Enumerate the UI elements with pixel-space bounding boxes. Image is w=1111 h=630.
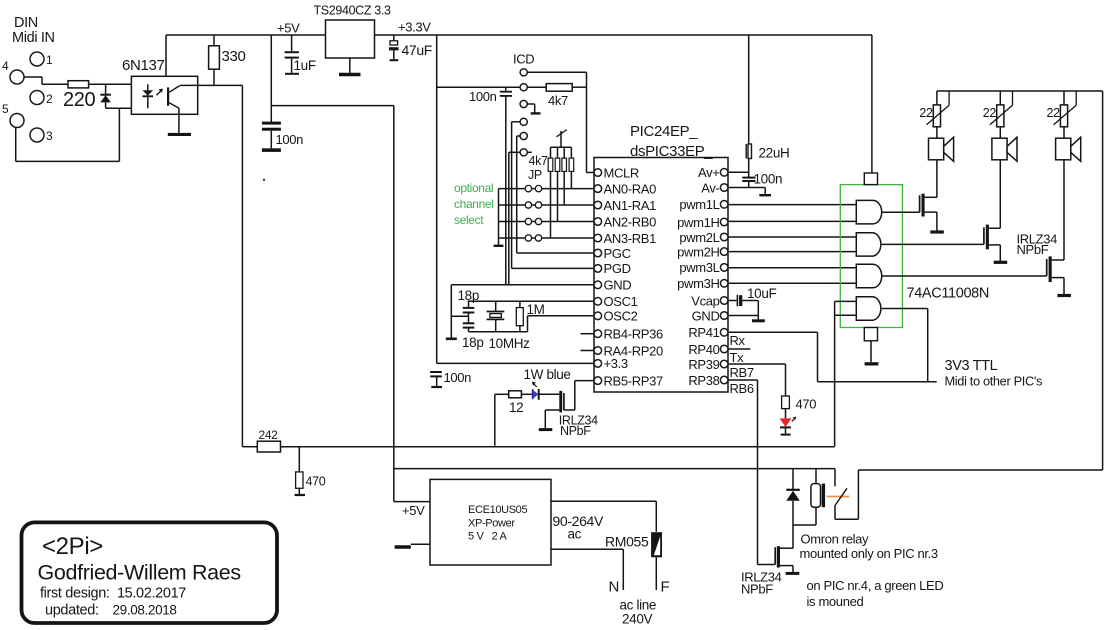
transistor Q5 IRLZ34 relay driver	[741, 546, 799, 596]
wire gate1 output to Q1 gate	[882, 211, 920, 213]
svg-text:3: 3	[46, 129, 53, 143]
wire RA4 stub	[581, 350, 595, 352]
PIC right pin pwm2L	[679, 230, 728, 245]
svg-text:DIN: DIN	[14, 15, 38, 31]
opto emitter ground	[168, 108, 191, 136]
resistor 22 variable ch2	[983, 91, 1013, 127]
svg-text:Vcap: Vcap	[691, 293, 719, 308]
wire Av- to ground	[728, 188, 771, 196]
opto internal LED	[143, 84, 154, 108]
svg-text:on PIC nr.4, a green LED: on PIC nr.4, a green LED	[807, 578, 944, 593]
svg-text:47uF: 47uF	[402, 42, 433, 58]
svg-text:Tx: Tx	[730, 350, 745, 365]
PIC left pin MCLR	[594, 165, 639, 180]
svg-text:10uF: 10uF	[747, 286, 776, 301]
svg-text:N: N	[609, 579, 619, 596]
pullup supply tick	[550, 130, 571, 148]
wire pullup1 to AN3 row	[550, 171, 552, 238]
PIC right pin pwm3L	[679, 260, 728, 275]
svg-text:AN1-RA1: AN1-RA1	[604, 198, 657, 213]
wire pwm2L to gate2	[728, 236, 856, 238]
svg-text:470: 470	[306, 475, 326, 489]
wire RB4 stub	[581, 333, 595, 335]
svg-text:pwm1H: pwm1H	[677, 215, 719, 230]
PIC left pin RB4-RP36	[594, 327, 663, 342]
svg-text:100n: 100n	[276, 132, 304, 147]
PIC left pin OSC2	[594, 309, 638, 324]
wire AC live to fuse	[551, 501, 656, 532]
svg-text:RP39: RP39	[688, 357, 719, 372]
wire RP40 Tx stub	[728, 349, 750, 365]
svg-text:+3.3: +3.3	[604, 356, 628, 371]
svg-text:pwm1L: pwm1L	[679, 197, 719, 212]
resistors 4k7 x4 jumper pullups	[529, 147, 574, 171]
svg-text:Omron relay: Omron relay	[801, 532, 870, 547]
optional channel select note	[454, 181, 494, 227]
ICD pin 1	[520, 69, 527, 76]
wire pwm3H to gate3	[728, 282, 856, 284]
svg-text:mounted only on PIC nr.3: mounted only on PIC nr.3	[800, 546, 938, 561]
PIC left pin AN3-RB1	[594, 231, 656, 246]
wire opto output to node	[180, 84, 242, 86]
svg-text:pwm2L: pwm2L	[679, 230, 719, 245]
svg-text:GND: GND	[692, 308, 720, 323]
svg-text:242: 242	[259, 428, 279, 442]
svg-text:+5V: +5V	[277, 21, 300, 36]
svg-text:29.08.2018: 29.08.2018	[113, 603, 177, 618]
wire +5V branch down to power supply	[271, 35, 430, 502]
PIC left pin OSC1	[594, 294, 638, 309]
wire AC neutral	[551, 549, 623, 590]
PIC left pin RA4-RP20	[594, 343, 663, 358]
wire pwm3L to gate3	[728, 267, 856, 269]
stray dot	[263, 179, 265, 181]
svg-text:ac line: ac line	[620, 598, 657, 613]
DIN pin 2	[30, 91, 53, 107]
svg-text:Rx: Rx	[730, 333, 746, 348]
wire +3.3 to PIC	[437, 362, 594, 364]
svg-text:2: 2	[46, 92, 53, 106]
svg-text:RB4-RP36: RB4-RP36	[604, 327, 663, 342]
speaker LS2	[992, 127, 1017, 228]
PIC left pin PGD	[594, 261, 631, 276]
wire pin4 to R 220	[24, 77, 68, 84]
svg-text:22uH: 22uH	[759, 146, 790, 161]
wire pullup2 to AN2 row	[557, 171, 559, 221]
capacitor 100n on +5V	[262, 122, 303, 152]
wire ICD pin5 to PGC	[517, 136, 594, 253]
svg-text:dsPIC33EP_: dsPIC33EP_	[630, 143, 713, 160]
speaker supply rail	[937, 91, 1103, 470]
IC U4 74AC11008N green outline	[840, 185, 989, 328]
wire pullup3 to AN1 row	[563, 171, 565, 205]
svg-text:Av+: Av+	[698, 165, 719, 180]
wire midi signal rail	[281, 446, 835, 448]
svg-text:RP40: RP40	[688, 342, 719, 357]
transistor Q1 IRLZ34	[920, 194, 944, 232]
svg-text:pwm3H: pwm3H	[677, 276, 719, 291]
wire opto LED cathode return	[16, 108, 148, 161]
PIC left pin AN0-RA0	[594, 181, 656, 196]
capacitor 100n on Av+	[742, 172, 782, 188]
relay contact switch	[827, 469, 1103, 520]
svg-text:AN2-RB0: AN2-RB0	[604, 214, 657, 229]
svg-text:RP38: RP38	[688, 373, 719, 388]
microcontroller U3 PIC24EP_/dsPIC33EP_	[594, 123, 728, 392]
svg-text:XP-Power: XP-Power	[468, 518, 515, 530]
svg-text:Midi IN: Midi IN	[12, 30, 55, 46]
svg-text:18p: 18p	[462, 335, 483, 350]
svg-text:240V: 240V	[622, 612, 652, 627]
wire opto output down to 242	[241, 85, 243, 446]
wire RB5 to LED driver gate	[575, 380, 594, 382]
capacitor 100n on +3.3	[430, 370, 471, 387]
green LED note	[807, 578, 944, 609]
svg-text:JP: JP	[528, 168, 542, 182]
gate IC power pin top	[864, 35, 877, 185]
svg-text:PGC: PGC	[604, 246, 631, 261]
svg-text:ECE10US05: ECE10US05	[468, 504, 527, 516]
crystal X1 10MHz	[487, 301, 531, 351]
IRLZ34 NPbF label	[1017, 232, 1058, 258]
+3.3V rail	[375, 20, 873, 36]
wire pullup4 to AN0 row	[570, 171, 572, 188]
wire gate3 output to Q3 gate	[882, 275, 1047, 277]
regulator U2 TS2940CZ 3.3	[314, 4, 391, 59]
wire pwm2H to gate2	[728, 251, 856, 253]
svg-text:AN3-RB1: AN3-RB1	[604, 231, 657, 246]
+5V rail	[166, 21, 326, 36]
svg-text:F: F	[661, 579, 670, 596]
AND gate 2	[856, 233, 881, 256]
svg-text:Midi to other PIC's: Midi to other PIC's	[945, 374, 1043, 389]
svg-text:Av-: Av-	[701, 180, 719, 195]
relay K1 coil	[811, 469, 825, 508]
svg-text:NPbF: NPbF	[741, 582, 773, 597]
PIC left pin GND	[594, 278, 631, 293]
wire Vdd line to ICD	[437, 86, 520, 88]
AC labels	[553, 513, 670, 627]
svg-text:NPbF: NPbF	[1017, 242, 1049, 257]
svg-text:select: select	[454, 213, 484, 227]
PIC left pin +3.3	[594, 356, 628, 371]
wire RP39 to 470/red LED	[728, 364, 786, 396]
resistor 220	[63, 81, 96, 111]
resistor 12	[509, 391, 524, 415]
svg-text:330: 330	[222, 48, 246, 65]
PIC right pin Av+	[698, 165, 728, 180]
AND gate 1	[856, 200, 881, 224]
svg-text:channel: channel	[454, 197, 494, 211]
svg-text:18p: 18p	[458, 288, 479, 303]
ICD pin 5	[520, 132, 527, 139]
regulator ground	[339, 58, 361, 75]
svg-text:first design: 15.02.2017: first design: 15.02.2017	[40, 586, 186, 602]
svg-text:6N137: 6N137	[122, 57, 164, 74]
svg-text:PGD: PGD	[604, 261, 631, 276]
ICD pin 3	[520, 100, 527, 107]
AND gate 3	[856, 264, 881, 288]
wire LED feed from midi rail	[495, 394, 509, 445]
wire gate4 output midi buffer	[818, 309, 937, 382]
svg-text:22: 22	[983, 106, 997, 120]
svg-text:OSC1: OSC1	[604, 294, 638, 309]
resistor 330 pullup	[209, 35, 246, 85]
opto phototransistor	[167, 86, 180, 109]
svg-text:+5V: +5V	[402, 503, 425, 518]
protection diode across opto input	[100, 84, 111, 108]
DIN Midi IN connector labels	[12, 15, 55, 46]
gate IC ground pin bottom	[864, 328, 878, 366]
svg-text:RB5-RP37: RB5-RP37	[604, 373, 663, 388]
PIC right pin Av-	[701, 180, 728, 195]
capacitor 100n on ICD Vdd	[469, 87, 512, 285]
svg-text:ac: ac	[568, 527, 582, 542]
svg-text:100n: 100n	[469, 89, 497, 104]
svg-text:OSC2: OSC2	[604, 309, 638, 324]
resistor 470 pulldown	[295, 447, 326, 495]
ICD pin 2	[520, 84, 527, 91]
svg-text:1W blue: 1W blue	[524, 367, 571, 382]
PIC left pin PGC	[594, 246, 631, 261]
svg-text:22: 22	[1047, 106, 1061, 120]
svg-text:5 V 2 A: 5 V 2 A	[468, 531, 507, 543]
svg-text:ICD: ICD	[513, 52, 534, 67]
svg-text:12: 12	[509, 400, 523, 415]
wire pwm1L to gate1	[728, 204, 856, 206]
svg-text:+3.3V: +3.3V	[398, 20, 431, 35]
svg-text:1uF: 1uF	[294, 58, 316, 73]
PIC right pin pwm2H	[677, 244, 728, 259]
wire pwm1H to gate1	[728, 220, 856, 222]
jumper JP1	[499, 185, 595, 191]
svg-text:4k7: 4k7	[529, 154, 549, 168]
svg-text:is mouned: is mouned	[807, 594, 864, 609]
speaker LS3	[1056, 127, 1081, 260]
wire OSC1 net	[468, 301, 594, 307]
3V3 TTL midi out note	[945, 358, 1043, 389]
Omron relay note	[800, 532, 938, 562]
title block	[22, 522, 278, 623]
wire 220 to optocoupler LED	[89, 83, 148, 85]
svg-text:4: 4	[2, 59, 9, 73]
LED D3 red	[780, 409, 797, 435]
DIN pin 5	[2, 102, 24, 128]
svg-text:74AC11008N: 74AC11008N	[907, 286, 990, 302]
ICD pin3 ground	[527, 104, 540, 113]
PIC left pin RB5-RP37	[594, 373, 663, 388]
svg-text:Godfried-Willem Raes: Godfried-Willem Raes	[38, 561, 241, 585]
svg-text:PIC24EP_: PIC24EP_	[630, 123, 698, 140]
svg-text:10MHz: 10MHz	[489, 336, 531, 351]
wire ICD pin4 to PGD	[512, 122, 594, 269]
wire gate2 output to Q2 gate	[882, 243, 984, 245]
PIC right pin pwm1H	[677, 215, 728, 230]
svg-text:optional: optional	[454, 181, 493, 195]
jumper JP3	[499, 218, 595, 224]
svg-text:3V3 TTL: 3V3 TTL	[945, 358, 998, 374]
inductor L1 22uH	[728, 35, 789, 177]
svg-text:pwm3L: pwm3L	[679, 260, 719, 275]
svg-text:pwm2H: pwm2H	[677, 244, 719, 259]
resistor 22 variable ch1	[919, 91, 949, 127]
resistor 1M	[516, 301, 544, 332]
resistor 4k7 MCLR pullup	[527, 84, 586, 108]
wire ICD pin1 to MCLR	[527, 72, 594, 172]
transistor Q4 IRLZ34 LED driver	[539, 381, 598, 438]
PIC right pin RP41	[688, 325, 728, 340]
PIC left pin AN2-RB0	[594, 214, 656, 229]
jumper JP4	[499, 235, 595, 241]
ICD pin 4	[520, 118, 527, 125]
svg-text:AN0-RA0: AN0-RA0	[604, 181, 657, 196]
svg-text:GND: GND	[604, 278, 632, 293]
wire PIC GND to crystal ground rail	[446, 285, 594, 339]
svg-text:RB7: RB7	[730, 365, 754, 380]
svg-text:100n: 100n	[444, 370, 472, 385]
LED D2 1W blue	[521, 367, 570, 400]
svg-text:470: 470	[796, 397, 817, 412]
resistor 242	[242, 428, 280, 452]
PIC right pin Vcap	[691, 293, 728, 308]
capacitor 47uF	[389, 35, 432, 60]
capacitor 18p lower	[462, 323, 483, 350]
speaker LS1	[929, 127, 954, 198]
jumper common ground	[494, 189, 504, 246]
svg-text:1: 1	[46, 53, 53, 67]
PIC right pin RP40	[688, 342, 728, 357]
DIN pin 4	[2, 59, 24, 84]
capacitor 10uF on Vcap	[728, 286, 776, 321]
svg-text:updated:: updated:	[45, 603, 99, 619]
wire gate4 inputs from midi rail	[835, 301, 857, 446]
wire ICD pin6 stub	[509, 152, 532, 284]
capacitor 18p upper	[458, 288, 479, 323]
capacitor 1uF	[285, 35, 316, 74]
relay flyback diode	[786, 469, 816, 549]
svg-text:RM055: RM055	[605, 534, 649, 550]
wire opto Vcc to +5V rail	[165, 35, 167, 76]
svg-text:4k7: 4k7	[548, 93, 568, 108]
optocoupler U1 6N137	[122, 57, 198, 114]
PIC right pin RP38	[688, 373, 728, 388]
wire RP41 Rx to gate4 area	[728, 332, 818, 381]
PIC left pin AN1-RA1	[594, 198, 656, 213]
jumper JP2	[499, 202, 595, 208]
svg-text:220: 220	[63, 89, 96, 111]
transistor Q2 IRLZ34	[984, 225, 1007, 263]
resistor 22 variable ch3	[1047, 91, 1077, 127]
PIC right pin pwm3H	[677, 276, 728, 291]
svg-text:RP41: RP41	[688, 325, 719, 340]
wire PIC GND right to ground	[728, 315, 758, 317]
svg-text:22: 22	[919, 106, 933, 120]
svg-text:5: 5	[2, 102, 9, 116]
PIC right pin GND	[692, 308, 728, 323]
ICD pin 6	[520, 149, 527, 156]
PIC right pin pwm1L	[679, 197, 728, 212]
svg-text:MCLR: MCLR	[604, 165, 639, 180]
svg-text:NPbF: NPbF	[560, 424, 591, 438]
wire +3.3V branch down to PIC	[436, 35, 438, 363]
svg-text:<2Pi>: <2Pi>	[42, 533, 103, 560]
wire +5V switched rail	[394, 468, 835, 470]
svg-text:TS2940CZ 3.3: TS2940CZ 3.3	[314, 4, 391, 18]
opto coupling arrow	[156, 89, 163, 96]
DIN pin 1	[30, 52, 53, 67]
wire RP38 RB6 to relay driver gate	[728, 380, 758, 565]
svg-text:RB6: RB6	[730, 381, 754, 396]
wire crystal bottom rail / OSC2 net	[469, 316, 595, 332]
power supply PS1 ECE10US05	[402, 479, 551, 565]
fuse F1 RM055	[605, 533, 661, 590]
AND gate 4	[856, 297, 881, 320]
svg-text:1M: 1M	[527, 302, 545, 317]
power supply ground	[395, 544, 430, 547]
svg-text:100n: 100n	[754, 172, 783, 187]
PIC right pin RP39	[688, 357, 728, 372]
resistor 470 LED series	[782, 396, 817, 412]
transistor Q3 IRLZ34	[1047, 256, 1071, 295]
DIN pin 3	[30, 128, 53, 143]
